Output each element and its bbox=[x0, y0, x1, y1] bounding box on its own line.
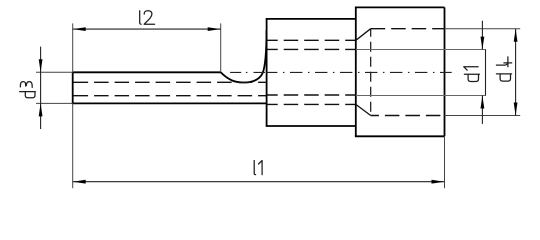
left vertical ext lower bbox=[72, 103, 74, 188]
sleeve bottom edge bbox=[355, 135, 445, 137]
d1 bottom arrow bbox=[481, 96, 485, 109]
barrel hidden line y49 bbox=[268, 48, 356, 50]
d4 dimension line bbox=[515, 29, 517, 116]
pin top edge bbox=[73, 71, 221, 73]
dimension lines bbox=[41, 21, 516, 182]
d1 top arrow bbox=[481, 37, 485, 50]
label l2 bbox=[140, 11, 155, 25]
d3 bottom arrow bbox=[39, 103, 43, 116]
centerline segment through barrel and sleeve bbox=[267, 71, 452, 73]
l2 right arrow bbox=[208, 27, 221, 31]
label d4 (rotated, drawn directly) bbox=[496, 57, 511, 81]
label d1 (rotated, drawn directly) bbox=[464, 67, 480, 82]
sleeve top edge bbox=[355, 6, 445, 8]
d4 ext top bbox=[445, 28, 521, 30]
left vertical ext (l2/l1) upper bbox=[72, 23, 74, 72]
l1 dimension line bbox=[73, 181, 445, 183]
label l1 bbox=[254, 161, 262, 175]
d4 top arrow bbox=[514, 29, 518, 42]
d3 ext bottom bbox=[36, 102, 73, 104]
sleeve left edge bbox=[355, 7, 357, 136]
l2 right ext bbox=[220, 23, 222, 72]
pin body outline bbox=[72, 7, 445, 136]
l2 left arrow bbox=[73, 27, 86, 31]
d4 bottom arrow bbox=[514, 103, 518, 116]
barrel top edge bbox=[266, 18, 356, 20]
barrel hidden line y40 bbox=[268, 39, 356, 41]
pin bottom edge bbox=[72, 102, 267, 104]
pin bore top hidden line bbox=[74, 81, 266, 83]
sleeve hidden tube bottom bbox=[371, 115, 445, 117]
centerline bbox=[230, 71, 452, 73]
funnel curve bbox=[221, 30, 267, 83]
pin left end cap bbox=[72, 72, 74, 103]
l1 right ext bbox=[444, 136, 446, 188]
d3 dimension line bbox=[40, 47, 42, 129]
hidden vertical step line bbox=[370, 29, 372, 116]
centerline segment left of funnel mouth bbox=[230, 71, 265, 73]
d1 connector bbox=[485, 50, 487, 96]
l1 left arrow bbox=[73, 180, 86, 184]
d3 top arrow bbox=[39, 59, 43, 72]
taper top bbox=[356, 29, 371, 41]
sleeve right edge bbox=[444, 7, 446, 136]
barrel hidden line y95 bbox=[268, 94, 356, 96]
hidden (dashed) lines bbox=[74, 29, 445, 116]
arrowheads bbox=[39, 27, 518, 183]
hidden step edges inside sleeve bbox=[356, 29, 371, 116]
barrel hidden line y104 bbox=[268, 103, 356, 105]
sleeve hidden tube top bbox=[371, 28, 445, 30]
d1 dim stub bottom bbox=[481, 96, 483, 124]
extension lines bbox=[36, 23, 520, 188]
pin bore bottom hidden line bbox=[74, 95, 266, 97]
d3 ext top bbox=[36, 71, 73, 73]
d1 dim stub top bbox=[481, 21, 483, 50]
labels (single stroke CAD style, drawn in page coordinates) bbox=[20, 11, 512, 175]
bore line bottom bbox=[356, 95, 486, 97]
taper bottom bbox=[356, 104, 371, 115]
bore line top bbox=[356, 49, 486, 51]
bore thin lines through sleeve (d1 extension) bbox=[356, 50, 486, 96]
label d3 (rotated, drawn directly) bbox=[20, 82, 36, 98]
l2 dimension line bbox=[73, 28, 221, 30]
l1 right arrow bbox=[432, 180, 445, 184]
funnel mouth edge bbox=[266, 19, 268, 126]
barrel bottom edge bbox=[266, 125, 356, 127]
d4 ext bottom bbox=[445, 115, 521, 117]
